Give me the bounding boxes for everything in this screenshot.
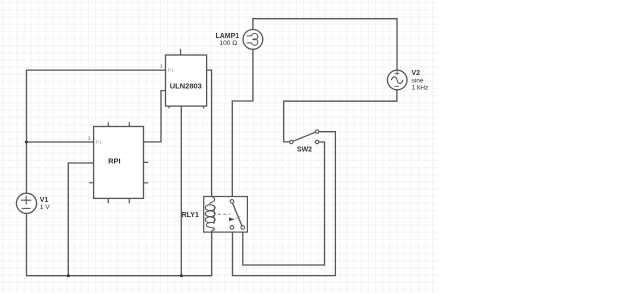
ULN2803 pin stubs	[169, 49, 204, 109]
wire node to RPI pin 1	[27, 141, 94, 143]
svg-text:RLY1: RLY1	[182, 212, 199, 219]
wire V1 minus bottom rail to relay coil bottom	[27, 213, 212, 275]
node junction ULN pin / bottom rail	[180, 274, 183, 277]
wire RPI left pin 2 to bottom rail	[68, 163, 93, 276]
relay RLY1 actuator dashed arrow	[218, 213, 230, 215]
source V2 sine	[387, 70, 407, 90]
svg-text:P1: P1	[96, 140, 102, 146]
source V1 plus sign	[21, 196, 31, 205]
lamp LAMP1	[243, 30, 263, 50]
node junction V1+/RPI	[25, 141, 28, 144]
svg-text:1 V: 1 V	[40, 204, 50, 211]
svg-text:100 Ω: 100 Ω	[219, 40, 237, 47]
wire lamp top to V2 top	[253, 19, 397, 71]
chip U2 ULN2803	[166, 55, 207, 106]
wire ULN2803 right pin to relay coil top	[207, 70, 212, 196]
svg-text:V1: V1	[40, 197, 49, 204]
source V2 minus sign	[394, 85, 398, 87]
chip RPI	[94, 127, 144, 199]
wire SW2 lower throw to relay NC pin	[243, 142, 325, 265]
wire V2 bottom to SW2 common	[284, 90, 397, 142]
svg-text:ULN2803: ULN2803	[170, 81, 202, 90]
wire SW2 upper throw to relay NO pin	[233, 132, 336, 276]
RPI pin stubs	[89, 122, 148, 203]
source V1	[16, 193, 36, 213]
svg-text:SW2: SW2	[297, 146, 312, 153]
grid background	[0, 0, 439, 293]
source V2 plus sign	[395, 71, 400, 75]
svg-text:LAMP1: LAMP1	[215, 33, 239, 40]
relay RLY1 switch lever	[233, 203, 242, 226]
svg-text:sine: sine	[412, 77, 424, 84]
relay RLY1 coil	[205, 197, 215, 233]
wire lamp bottom to relay common pin	[232, 49, 253, 200]
source V2 sine wave	[391, 77, 403, 84]
source V1 minus sign	[22, 207, 31, 209]
node junction RPI pin2 / bottom rail	[67, 274, 70, 277]
svg-text:P1: P1	[168, 67, 174, 73]
svg-text:RPI: RPI	[108, 156, 121, 165]
wire RPI right pin 1 to ULN2803 left pin 2	[144, 91, 166, 142]
svg-text:V2: V2	[412, 70, 421, 77]
relay RLY1 box	[204, 197, 248, 233]
relay RLY1 switch contacts	[230, 200, 234, 204]
switch SW2 contacts	[290, 140, 293, 143]
svg-text:1 kHz: 1 kHz	[412, 85, 429, 92]
wire ULN2803 bottom pin to bottom rail	[180, 106, 182, 276]
wire V1 plus to ULN2803 pin 1	[27, 70, 166, 193]
switch SW2 lever	[293, 132, 316, 141]
lamp LAMP1 filament	[247, 33, 258, 45]
